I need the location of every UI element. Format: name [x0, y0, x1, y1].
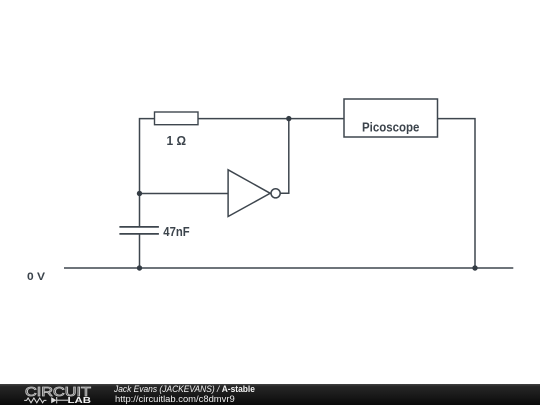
capacitor C1 plates: [119, 227, 158, 234]
value label 1 Ω: [167, 133, 187, 148]
wire: node to inverter input: [140, 193, 229, 195]
junction: top net at inverter feedback: [286, 116, 291, 121]
inverter U1 triangle: [228, 170, 270, 217]
junction: capacitor leg on ground rail: [137, 265, 142, 270]
svg-text:0 V: 0 V: [27, 271, 46, 283]
CircuitLab logo: [0, 384, 100, 405]
wire: Picoscope right pin right and down to ground rail: [438, 119, 476, 268]
wire: capacitor bottom plate down to ground rail: [139, 234, 141, 268]
value label 47nF: [163, 224, 189, 239]
wire: inverter output up to top net: [280, 119, 289, 194]
Picoscope instrument box: [344, 99, 438, 137]
resistor R1 body: [155, 112, 199, 125]
junction: Picoscope leg on ground rail: [472, 265, 477, 270]
svg-text:Picoscope: Picoscope: [362, 121, 419, 135]
net label 0 V: [27, 271, 46, 283]
inverter U1 output bubble: [271, 189, 280, 198]
footer bar: [0, 384, 540, 405]
wire: resistor right pin to Picoscope left pin: [198, 118, 344, 120]
wire: 0 V ground rail: [64, 267, 513, 269]
label Picoscope: [362, 121, 419, 135]
wire: left branch from resistor left pin down to capacitor top plate: [140, 119, 155, 227]
svg-text:47nF: 47nF: [163, 224, 189, 239]
svg-text:LAB: LAB: [68, 396, 92, 405]
junction: left branch at inverter input: [137, 191, 142, 196]
svg-text:1 Ω: 1 Ω: [167, 133, 187, 148]
